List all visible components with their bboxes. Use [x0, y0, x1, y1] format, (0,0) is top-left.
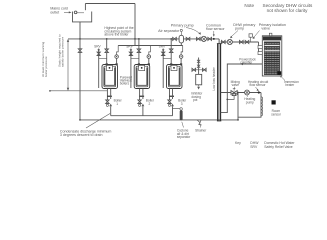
air separator: [179, 35, 183, 43]
wire boiler return manifold: [118, 45, 183, 47]
boiler 3 flow pipe: [170, 39, 172, 65]
leader common flow sensor: [213, 31, 215, 35]
valve primary isolation b: [245, 41, 249, 44]
svg-text:1: 1: [116, 102, 118, 106]
leader mixing valve: [233, 87, 236, 89]
valve flow a: [173, 37, 177, 40]
boiler 3 shunt pump: [180, 58, 182, 64]
SRV 2 discharge: [130, 49, 132, 89]
dimension static height: [67, 40, 69, 89]
leader dhw primary pump: [231, 31, 238, 37]
svg-text:above the boiler: above the boiler: [104, 33, 129, 37]
boiler 2 drain: [139, 89, 141, 105]
svg-text:2: 2: [149, 102, 151, 106]
wire vent top horizontal: [85, 3, 135, 5]
wire primary return from calorifier: [221, 64, 263, 113]
inhibitor dosing pot: [198, 58, 200, 75]
svg-text:SRV: SRV: [126, 45, 133, 49]
svg-text:pump: pump: [235, 27, 244, 31]
svg-text:satisfy boiler pressure: satisfy boiler pressure: [61, 37, 65, 67]
svg-text:Strainer: Strainer: [195, 128, 207, 132]
svg-text:3 degrees descent to drain: 3 degrees descent to drain: [60, 133, 103, 137]
boiler 2: [134, 65, 150, 89]
svg-text:Key: Key: [235, 141, 241, 145]
leader condensate: [86, 114, 110, 129]
valve dhw isolating: [222, 41, 226, 44]
svg-text:outlet: outlet: [50, 11, 59, 15]
immersion heater: [277, 71, 281, 75]
SRV 1 discharge: [98, 49, 100, 89]
wire mixing bypass: [227, 96, 234, 100]
svg-text:Boiler: Boiler: [178, 99, 187, 103]
svg-text:calorifier: calorifier: [240, 61, 253, 65]
boiler 1 drain: [106, 89, 108, 105]
float valve: [74, 11, 77, 14]
boiler 3 condensate: [172, 89, 174, 100]
radiator coil: [261, 97, 263, 116]
wire boiler pressure reference line: [50, 90, 107, 92]
boiler 1: [102, 65, 118, 89]
leader immersion heater: [281, 76, 286, 81]
boiler 1 flow pipe: [106, 39, 108, 65]
boiler 3 drain: [169, 89, 171, 105]
flange primary flow: [258, 52, 262, 55]
wire heating circuit loop: [238, 93, 261, 120]
valve flow d: [208, 37, 212, 40]
valve primary isolation a: [240, 41, 244, 44]
boiler 2 flow pipe: [138, 39, 140, 65]
svg-text:flow sensor: flow sensor: [206, 27, 225, 31]
wire primary flow drop to calorifier: [258, 42, 260, 53]
leader primary isolation valve: [254, 31, 260, 38]
wire heating flow: [221, 92, 261, 94]
svg-text:3: 3: [181, 102, 183, 106]
wire air separator stub: [180, 43, 182, 46]
svg-text:SRV: SRV: [94, 45, 101, 49]
wire vent riser: [134, 4, 136, 46]
valve cold feed: [78, 49, 81, 53]
valve flow c: [197, 37, 201, 40]
mains cold inlet arrow: [64, 11, 70, 13]
svg-text:Primary pump: Primary pump: [171, 23, 194, 27]
svg-text:sensor: sensor: [271, 113, 282, 117]
valve flow b: [186, 37, 190, 40]
svg-text:valve: valve: [261, 27, 270, 31]
boiler 1 shunt pump: [116, 58, 118, 64]
svg-text:SRV: SRV: [159, 45, 166, 49]
DHW primary pump: [227, 39, 232, 44]
svg-text:Note: Note: [244, 3, 254, 8]
mixing valve: [231, 91, 237, 96]
leader heating flow sensor: [256, 87, 259, 90]
svg-text:separator: separator: [177, 135, 191, 139]
leader cyclone: [182, 122, 184, 128]
svg-text:pot: pot: [193, 98, 198, 102]
svg-text:boiler pressure: boiler pressure: [44, 56, 48, 77]
wire cold feed: [79, 22, 81, 120]
svg-text:heater: heater: [285, 83, 295, 87]
node flow header: [68, 38, 219, 40]
air and dirt separator on return: [180, 108, 183, 111]
text labels: [50, 7, 68, 15]
svg-text:flow sensor: flow sensor: [250, 83, 267, 87]
svg-text:not shown for clarity: not shown for clarity: [267, 8, 309, 13]
heating pump: [245, 90, 250, 95]
boiler 2 condensate: [142, 89, 144, 100]
strainer: [197, 120, 202, 125]
svg-text:Safety Relief Valve: Safety Relief Valve: [264, 145, 293, 149]
wire condensate drain line: [111, 115, 173, 117]
F&E cistern: [73, 12, 92, 22]
SRV 3 discharge: [162, 49, 164, 89]
node common flow sensor: [213, 38, 215, 40]
svg-text:SRV: SRV: [250, 145, 258, 149]
auto air vent: [250, 37, 252, 42]
wire DHW primary flow: [221, 41, 259, 43]
junction dots: [79, 38, 239, 121]
svg-text:valve: valve: [232, 83, 240, 87]
leader primary pump: [186, 28, 200, 34]
leader strainer: [199, 124, 202, 128]
svg-text:pump: pump: [246, 101, 254, 105]
svg-text:boilers: boilers: [120, 82, 130, 86]
node heating flow sensor: [258, 91, 260, 93]
low loss header: [217, 39, 221, 121]
boiler 1 condensate: [110, 89, 112, 100]
calorifier cylinder: [258, 33, 282, 76]
svg-text:Boiler: Boiler: [114, 99, 123, 103]
wire return header: [80, 119, 238, 121]
flange pocket: [258, 46, 262, 49]
boiler 3: [167, 65, 183, 89]
svg-text:Low loss header: Low loss header: [212, 66, 216, 90]
svg-text:Boiler: Boiler: [146, 99, 155, 103]
svg-text:Air separator: Air separator: [158, 29, 180, 33]
primary pump: [201, 36, 206, 41]
room sensor: [272, 100, 276, 104]
wire vent terminal over cistern: [84, 4, 86, 11]
boiler 2 shunt pump: [148, 58, 150, 64]
leader heating pump: [246, 95, 248, 97]
